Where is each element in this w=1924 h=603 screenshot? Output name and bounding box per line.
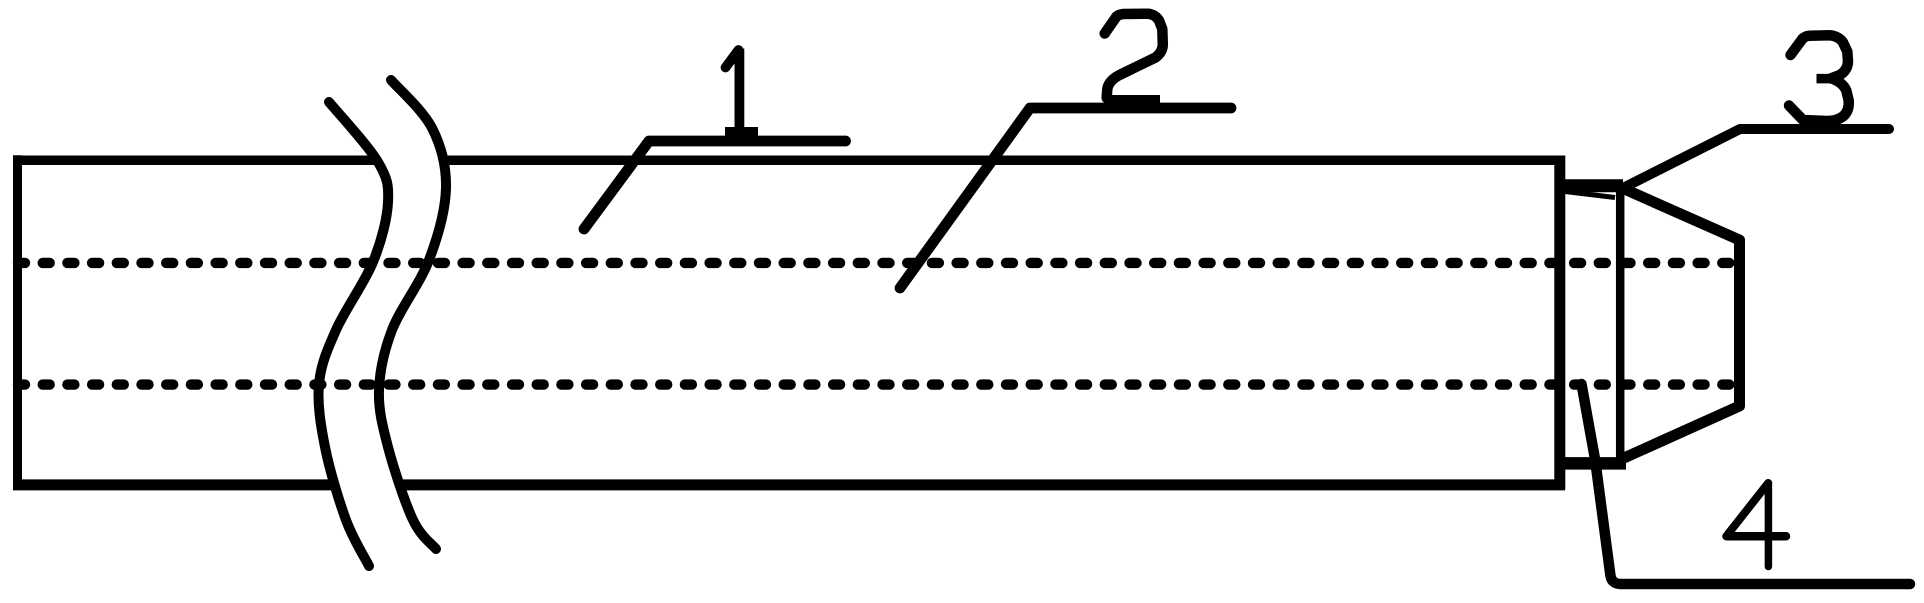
body bottom edge left segment (13, 479, 331, 490)
body top edge left segment (13, 156, 374, 166)
numeral 1 flag (726, 50, 739, 68)
leader line 2 (900, 108, 1231, 288)
leader line 4 (1582, 384, 1911, 584)
numeral 1 foot (725, 127, 758, 137)
lower center line (dashed) (18, 379, 1739, 389)
numeral 4 stem (1765, 483, 1773, 567)
numeral 3 (1789, 35, 1849, 121)
numeral 2 base bump (1106, 95, 1160, 105)
leader line 1 (584, 141, 846, 229)
neck inner slant line (1565, 192, 1615, 198)
numeral 1 stem (735, 49, 745, 129)
body right edge (1554, 156, 1565, 490)
neck top line (1564, 179, 1623, 192)
neck bottom line (1564, 457, 1626, 470)
cone outline (1622, 188, 1740, 458)
numeral 2 (1105, 14, 1163, 98)
leader line 3 (1622, 129, 1889, 189)
upper center line (dashed) (18, 258, 1739, 268)
numeral 3 middle tick (1817, 74, 1839, 84)
numeral 4 bar (1727, 532, 1787, 541)
break line right curve (379, 80, 446, 549)
numeral 4 diagonal (1728, 483, 1768, 534)
body top edge right segment (445, 156, 1564, 166)
cone left edge (1616, 192, 1625, 464)
body bottom edge right segment (399, 479, 1565, 490)
break line left curve (318, 102, 388, 566)
body left edge (13, 155, 22, 489)
numeral 3 base bump (1800, 120, 1837, 129)
